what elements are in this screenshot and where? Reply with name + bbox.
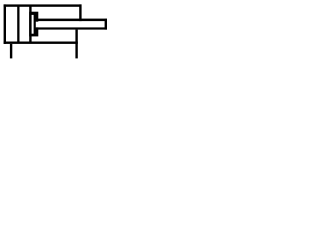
right port line bbox=[75, 30, 77, 59]
piston rod white interior bbox=[36, 22, 105, 28]
cylinder schematic symbol bbox=[0, 0, 109, 62]
cylinder body top wall bbox=[4, 4, 82, 6]
background bbox=[0, 0, 109, 62]
piston rod top line bbox=[36, 19, 107, 22]
piston rod bottom line bbox=[36, 27, 107, 29]
piston line 2 bbox=[29, 6, 31, 42]
left port line bbox=[10, 44, 12, 59]
piston rod right end cap bbox=[105, 19, 107, 30]
piston line 1 bbox=[17, 6, 19, 42]
cushion boss solid block bbox=[29, 12, 38, 37]
cylinder body bottom wall bbox=[4, 42, 78, 44]
cylinder body right wall bbox=[79, 4, 81, 21]
cylinder body left wall bbox=[4, 4, 6, 44]
white slot between piston line 2 and boss bbox=[32, 15, 34, 34]
